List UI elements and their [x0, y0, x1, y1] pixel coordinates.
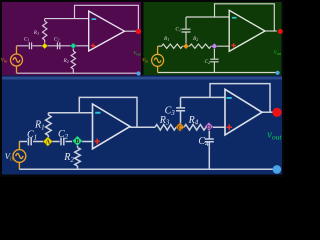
svg-text:R2: R2: [63, 58, 69, 64]
svg-text:Vin: Vin: [1, 58, 7, 64]
svg-text:D: D: [207, 125, 212, 131]
svg-text:R2: R2: [192, 36, 198, 42]
svg-text:Vout: Vout: [274, 51, 283, 56]
svg-text:A: A: [46, 140, 51, 146]
svg-text:R1: R1: [33, 30, 39, 36]
svg-text:C2: C2: [205, 59, 211, 65]
svg-text:R1: R1: [163, 36, 169, 42]
svg-text:Vout: Vout: [133, 52, 142, 57]
svg-text:C: C: [178, 125, 182, 131]
svg-text:C2: C2: [54, 36, 60, 42]
svg-text:C1: C1: [175, 27, 181, 33]
svg-text:C1: C1: [24, 36, 30, 42]
svg-text:B: B: [75, 139, 79, 145]
svg-text:Vin: Vin: [142, 58, 148, 64]
